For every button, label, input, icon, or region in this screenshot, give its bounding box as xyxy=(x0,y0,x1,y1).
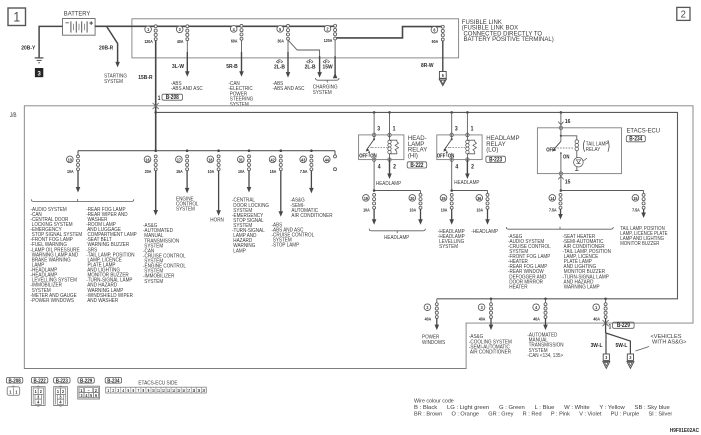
svg-text:B-208: B-208 xyxy=(166,95,179,102)
svg-text:13: 13 xyxy=(167,388,170,393)
svg-text:20B-Y: 20B-Y xyxy=(21,45,35,51)
svg-text:RELAY: RELAY xyxy=(586,147,601,154)
svg-text:18: 18 xyxy=(192,388,195,393)
svg-text:15: 15 xyxy=(633,195,638,201)
svg-text:43: 43 xyxy=(301,157,306,163)
svg-text:6: 6 xyxy=(132,387,134,393)
svg-text:1: 1 xyxy=(107,387,109,393)
svg-text:4: 4 xyxy=(122,387,124,393)
svg-text:ETACS-ECU: ETACS-ECU xyxy=(627,128,661,134)
svg-text:(LO): (LO) xyxy=(486,146,498,153)
svg-text:OFF: OFF xyxy=(437,153,446,160)
svg-text:40A: 40A xyxy=(479,316,486,322)
svg-text:120A: 120A xyxy=(324,38,333,44)
svg-text:-POWER WINDOWS: -POWER WINDOWS xyxy=(31,297,75,304)
svg-text:10A: 10A xyxy=(441,207,448,213)
svg-text:15: 15 xyxy=(565,179,571,185)
svg-text:3W-L: 3W-L xyxy=(591,343,604,349)
svg-text:OFF: OFF xyxy=(546,147,555,154)
svg-text:10A: 10A xyxy=(477,207,484,213)
svg-text:2: 2 xyxy=(40,389,43,395)
svg-text:4: 4 xyxy=(378,164,382,170)
svg-text:2L-B: 2L-B xyxy=(274,64,285,70)
svg-text:36: 36 xyxy=(477,195,482,201)
svg-text:WITH AS&G>: WITH AS&G> xyxy=(651,340,688,346)
svg-text:5: 5 xyxy=(442,72,445,78)
svg-text:1: 1 xyxy=(158,95,161,102)
svg-text:AIR CONDITIONER: AIR CONDITIONER xyxy=(290,212,332,219)
svg-text:5R-B: 5R-B xyxy=(226,64,238,70)
svg-text:3: 3 xyxy=(117,387,119,393)
svg-text:60A: 60A xyxy=(432,39,439,45)
svg-text:10A: 10A xyxy=(67,168,74,174)
svg-text:LAMP: LAMP xyxy=(232,248,246,255)
svg-text:SYSTEM: SYSTEM xyxy=(438,244,458,251)
svg-text:B-222: B-222 xyxy=(34,378,46,385)
svg-text:SYSTEM: SYSTEM xyxy=(176,206,195,213)
svg-text:SYSTEM: SYSTEM xyxy=(313,89,332,96)
svg-text:10A: 10A xyxy=(363,207,370,213)
svg-text:31: 31 xyxy=(239,157,244,163)
svg-text:2: 2 xyxy=(681,9,687,21)
svg-text:8R-W: 8R-W xyxy=(421,63,434,69)
svg-text:AND WASHER: AND WASHER xyxy=(86,297,118,304)
svg-text:B-222: B-222 xyxy=(410,162,423,169)
svg-text:10A: 10A xyxy=(208,168,215,174)
svg-text:B-229: B-229 xyxy=(617,323,630,330)
svg-text:OFF: OFF xyxy=(359,153,368,160)
svg-text:HEADLAMP: HEADLAMP xyxy=(376,181,402,188)
svg-text:7.5A: 7.5A xyxy=(300,168,308,174)
svg-text:9: 9 xyxy=(148,387,150,393)
svg-text:HORN: HORN xyxy=(210,217,224,224)
svg-text:1: 1 xyxy=(609,324,612,331)
svg-text:20B-R: 20B-R xyxy=(99,45,113,51)
svg-text:4: 4 xyxy=(455,164,459,170)
svg-text:40A: 40A xyxy=(425,316,432,322)
svg-text:1: 1 xyxy=(471,126,474,132)
svg-text:20: 20 xyxy=(203,388,206,393)
svg-text:40A: 40A xyxy=(593,316,600,322)
svg-text:19: 19 xyxy=(364,195,369,201)
svg-text:B-229: B-229 xyxy=(80,378,92,385)
svg-text:14: 14 xyxy=(550,195,555,201)
svg-text:120A: 120A xyxy=(144,38,153,44)
svg-text:<F>: <F> xyxy=(323,59,330,65)
svg-text:4: 4 xyxy=(85,392,88,398)
svg-text:ON: ON xyxy=(563,154,570,161)
svg-text:+: + xyxy=(89,21,93,28)
svg-text:10: 10 xyxy=(152,388,155,393)
svg-text:1: 1 xyxy=(9,389,12,395)
svg-text:HEADLAMP: HEADLAMP xyxy=(384,235,410,242)
svg-text:2: 2 xyxy=(112,387,114,393)
svg-text:B-223: B-223 xyxy=(489,157,502,164)
svg-text:4: 4 xyxy=(37,399,40,405)
svg-text:WINDOWS: WINDOWS xyxy=(422,339,446,346)
svg-text:3: 3 xyxy=(629,355,632,361)
svg-text:17: 17 xyxy=(187,388,190,393)
svg-text:11: 11 xyxy=(157,388,159,393)
svg-text:<F>: <F> xyxy=(306,59,313,65)
svg-text:14: 14 xyxy=(172,388,175,393)
svg-text:3: 3 xyxy=(605,355,608,361)
svg-text:BATTERY: BATTERY xyxy=(64,11,91,17)
svg-text:20: 20 xyxy=(410,195,415,201)
svg-text:17: 17 xyxy=(177,157,182,163)
svg-text:1: 1 xyxy=(393,126,396,132)
svg-text:15W: 15W xyxy=(323,64,334,70)
svg-text:7.5A: 7.5A xyxy=(549,207,557,213)
svg-text:42: 42 xyxy=(271,157,276,163)
svg-text:B-208: B-208 xyxy=(9,378,21,385)
svg-text:B-223: B-223 xyxy=(56,378,68,385)
svg-text:-ABS AND ASC: -ABS AND ASC xyxy=(273,86,305,93)
svg-text:4: 4 xyxy=(59,399,62,405)
svg-text:B-234: B-234 xyxy=(629,136,642,143)
svg-text:40A: 40A xyxy=(177,38,184,44)
svg-text:<F>: <F> xyxy=(276,59,283,65)
svg-text:15A: 15A xyxy=(176,168,183,174)
svg-text:15A: 15A xyxy=(270,168,277,174)
svg-text:2: 2 xyxy=(62,389,65,395)
svg-text:3: 3 xyxy=(377,126,380,132)
svg-text:30A: 30A xyxy=(277,38,284,44)
svg-text:1: 1 xyxy=(15,389,18,395)
svg-text:5: 5 xyxy=(90,392,93,398)
svg-text:-ABS AND ASC: -ABS AND ASC xyxy=(171,86,203,93)
svg-text:12: 12 xyxy=(162,388,165,393)
svg-text:BR : Brown O : Orange: BR : Brown O : Orange GR : Grey R : Red … xyxy=(414,411,673,416)
svg-text:SYSTEM: SYSTEM xyxy=(143,278,163,285)
svg-text:1: 1 xyxy=(13,9,20,25)
svg-text:ETACS-ECU SIDE: ETACS-ECU SIDE xyxy=(138,380,178,387)
svg-text:-HEADLAMP: -HEADLAMP xyxy=(471,229,498,236)
svg-text:5W-L: 5W-L xyxy=(615,343,628,349)
svg-text:18: 18 xyxy=(208,157,213,163)
svg-text:B-234: B-234 xyxy=(107,378,119,385)
svg-text:19: 19 xyxy=(197,388,200,393)
svg-text:6: 6 xyxy=(95,392,98,398)
svg-text:(HI): (HI) xyxy=(408,152,418,159)
svg-text:2L-B: 2L-B xyxy=(305,64,316,70)
svg-text:SYSTEM: SYSTEM xyxy=(229,101,249,108)
svg-text:3: 3 xyxy=(80,392,83,398)
svg-text:MONITOR BUZZER: MONITOR BUZZER xyxy=(620,241,659,248)
svg-text:B : Black LG : Light gree: B : Black LG : Light green G : Green L :… xyxy=(414,405,670,410)
svg-text:10: 10 xyxy=(68,157,73,163)
svg-text:HEATER: HEATER xyxy=(508,284,528,291)
svg-text:5: 5 xyxy=(127,387,129,393)
svg-text:H9F01E02AC: H9F01E02AC xyxy=(670,428,699,434)
svg-text:BATTERY POSITIVE TERMINAL): BATTERY POSITIVE TERMINAL) xyxy=(462,36,554,43)
svg-text:SYSTEM: SYSTEM xyxy=(104,78,123,85)
svg-text:3: 3 xyxy=(455,126,458,132)
svg-text:40A: 40A xyxy=(533,316,540,322)
svg-text:10A: 10A xyxy=(410,207,417,213)
svg-text:7: 7 xyxy=(138,387,140,393)
svg-text:HEADLAMP: HEADLAMP xyxy=(454,180,480,187)
svg-text:7.5A: 7.5A xyxy=(632,207,640,213)
svg-text:60A: 60A xyxy=(231,38,238,44)
svg-text:16: 16 xyxy=(182,388,185,393)
svg-text:3: 3 xyxy=(38,70,42,77)
svg-text:-STOP LAMP: -STOP LAMP xyxy=(272,242,300,249)
svg-text:44: 44 xyxy=(325,157,330,163)
svg-text:−: − xyxy=(65,20,69,27)
svg-text:WARNING LAMP: WARNING LAMP xyxy=(563,284,601,291)
svg-text:16: 16 xyxy=(565,118,571,124)
svg-text:2: 2 xyxy=(393,164,396,170)
svg-text:15B-R: 15B-R xyxy=(138,74,152,80)
svg-text:8: 8 xyxy=(143,387,145,393)
svg-text:15: 15 xyxy=(177,388,180,393)
svg-text:Wire colour code: Wire colour code xyxy=(414,399,454,405)
svg-text:2: 2 xyxy=(471,164,474,170)
svg-text:AIR CONDITIONER: AIR CONDITIONER xyxy=(469,349,511,356)
svg-text:3L-W: 3L-W xyxy=(172,64,185,70)
svg-text:35: 35 xyxy=(441,195,446,201)
svg-text:20A: 20A xyxy=(145,168,152,174)
svg-text:16: 16 xyxy=(145,157,150,163)
svg-text:-CAN <134, 135>: -CAN <134, 135> xyxy=(527,352,563,359)
svg-text:10A: 10A xyxy=(238,168,245,174)
svg-text:J/B: J/B xyxy=(10,113,17,120)
